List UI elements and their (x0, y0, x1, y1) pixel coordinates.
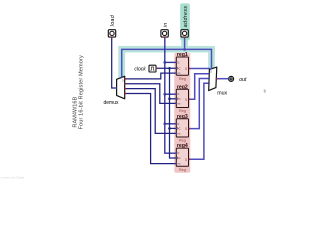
svg-text:reg4: reg4 (177, 143, 188, 149)
demux (address-selected enable distributor) (117, 76, 125, 99)
wire: clock branch to reg2 C (170, 98, 177, 100)
input pin: address (highlighted) (181, 30, 188, 37)
junction: in bus at reg2 D (163, 93, 166, 96)
svg-text:en: en (177, 133, 180, 136)
svg-text:mux: mux (217, 91, 227, 97)
svg-text:Four 16-bit Register Memory: Four 16-bit Register Memory (78, 55, 84, 130)
register reg4 (176, 143, 188, 172)
svg-text:D: D (177, 92, 179, 96)
wire: demux out2 to reg3 en (125, 89, 177, 134)
wire: address bus down to mux select (211, 49, 213, 69)
svg-text:en: en (177, 102, 180, 105)
register reg2 (176, 84, 188, 113)
svg-text:load: load (110, 14, 116, 26)
svg-text:clock: clock (134, 66, 146, 72)
wire: reg3 Q to mux input 2 (189, 79, 210, 129)
junction: in bus at reg1 D (163, 61, 166, 64)
svg-text:reg3: reg3 (177, 114, 188, 120)
svg-text:Q: Q (185, 67, 187, 71)
svg-text:C: C (179, 97, 181, 101)
svg-text:demux: demux (103, 100, 119, 106)
svg-text:Reg: Reg (179, 167, 186, 172)
clock component (149, 65, 156, 72)
wire: in bus branch to reg3 D (165, 123, 177, 125)
wire: address bus down to demux select (121, 49, 123, 78)
junction: clock net fanout (168, 67, 171, 70)
svg-text:Reg: Reg (179, 138, 186, 143)
wire: reg1 Q to mux input 0 (189, 68, 210, 70)
wire: address net horizontal bus (122, 48, 212, 50)
junction: address bus at pin drop (183, 48, 186, 51)
wire: demux out1 to reg2 en (125, 84, 177, 104)
svg-text:in: in (163, 22, 169, 27)
highlight band: address net drop to mux select (208, 46, 215, 70)
blue input pin dots (116, 87, 117, 88)
wire: in bus branch to reg1 D (165, 61, 177, 63)
svg-text:D: D (177, 60, 179, 64)
svg-text:address: address (183, 6, 189, 28)
wire: load pin down and into demux input (112, 37, 117, 88)
svg-text:D: D (177, 122, 179, 126)
svg-text:en: en (177, 72, 180, 75)
mux (address-selected output selector) (209, 67, 217, 91)
red output pin dots (125, 78, 127, 80)
svg-text:en: en (177, 162, 180, 165)
highlight band: address net drop to demux select (118, 46, 125, 79)
register reg3 (176, 114, 188, 143)
junction: clock net at reg2 C (168, 98, 171, 101)
wire: demux out3 to reg4 en (125, 94, 177, 164)
svg-text:Reg: Reg (179, 76, 186, 81)
highlight band: address net (horizontal bus) (118, 46, 214, 53)
wire: address pin drop to bus (184, 37, 186, 49)
highlight band: address input pin (180, 3, 190, 40)
svg-text:reg1: reg1 (177, 52, 188, 58)
wire: in bus vertical with branches to D inputs (165, 37, 177, 153)
output pin: out (229, 76, 234, 81)
svg-text:reg2: reg2 (177, 84, 188, 90)
highlight column: registers reg1-reg4 (174, 53, 190, 173)
svg-text:Q: Q (185, 127, 187, 131)
wire: mux output to out pin (216, 78, 228, 80)
register reg1 (176, 52, 188, 81)
wire: demux out0 to reg1 en (125, 73, 177, 79)
junction: clock net at reg3 C (168, 127, 171, 130)
wire: clock net to C inputs (156, 67, 176, 69)
svg-text:Q: Q (185, 157, 187, 161)
svg-text:D: D (177, 151, 179, 155)
svg-text:C: C (179, 66, 181, 70)
svg-text:created with Digital: created with Digital (1, 176, 25, 180)
svg-text:Q: Q (185, 97, 187, 101)
wire: reg4 Q to mux input 3 (189, 83, 210, 159)
junction: in bus at reg3 D (163, 122, 166, 125)
svg-text:Reg: Reg (179, 108, 186, 113)
svg-text:C: C (179, 156, 181, 160)
svg-text:C: C (179, 126, 181, 130)
wire: reg2 Q to mux input 1 (189, 74, 210, 100)
input pin: in (161, 30, 168, 37)
wire: in bus branch to reg2 D (165, 93, 177, 95)
svg-text:out: out (239, 77, 247, 83)
input pin: load (108, 30, 115, 37)
wire: clock branch to reg3 C (170, 127, 177, 129)
highlight band: address pin wire drop (181, 38, 188, 52)
